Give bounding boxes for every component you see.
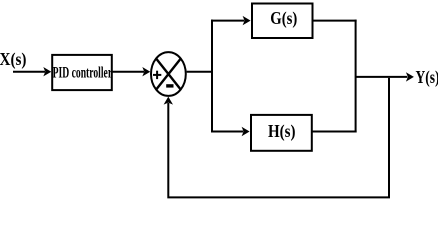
wire branch to G(s) bbox=[211, 20, 244, 22]
wire feedback path bbox=[168, 78, 389, 197]
plus sign bbox=[153, 74, 161, 76]
wire branch to H(s) bbox=[211, 131, 243, 133]
wire input X(s) to PID controller bbox=[13, 71, 45, 73]
wire output to Y(s) bbox=[356, 76, 408, 78]
wire H(s) output to right bus bbox=[312, 131, 357, 133]
summing junction X cross bbox=[156, 58, 181, 89]
block H(s) bbox=[251, 115, 312, 151]
wire branch vertical bbox=[211, 20, 213, 133]
block PID controller bbox=[52, 55, 112, 90]
block G(s) bbox=[252, 4, 313, 39]
summing junction ellipse bbox=[151, 52, 186, 96]
wire summing junction to branch node bbox=[187, 71, 213, 73]
svg-text:H(s): H(s) bbox=[268, 121, 296, 142]
wire G(s) output to right bus bbox=[313, 20, 357, 22]
svg-text:Y(s): Y(s) bbox=[416, 67, 438, 88]
svg-text:X(s): X(s) bbox=[0, 49, 27, 70]
wire right bus vertical bbox=[355, 20, 357, 133]
wire PID controller to summing junction bbox=[113, 71, 145, 73]
minus sign bbox=[166, 84, 173, 87]
svg-text:G(s): G(s) bbox=[270, 8, 297, 29]
svg-text:PID controller: PID controller bbox=[53, 65, 112, 82]
